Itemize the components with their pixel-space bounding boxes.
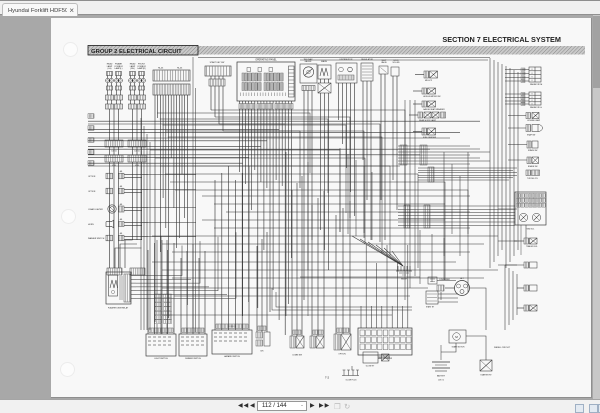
- svg-text:HL-06: HL-06: [177, 68, 182, 70]
- svg-text:TGM SOL: TGM SOL: [526, 229, 535, 231]
- svg-text:TUR DEL PIL: TUR DEL PIL: [527, 178, 538, 180]
- svg-text:RADIATOR RH: RADIATOR RH: [530, 83, 543, 86]
- svg-text:SNAP SW: SNAP SW: [527, 133, 536, 136]
- svg-text:GLOW RY: GLOW RY: [366, 366, 375, 368]
- svg-text:(RH): (RH): [130, 68, 135, 70]
- svg-text:A B: A B: [120, 203, 122, 206]
- svg-text:ALT: ALT: [460, 277, 464, 280]
- svg-text:LIGHT SWITCH: LIGHT SWITCH: [154, 358, 168, 360]
- svg-text:M: M: [455, 335, 458, 339]
- svg-text:GAUGE SEAT BREAKER: GAUGE SEAT BREAKER: [423, 108, 445, 111]
- svg-text:BRAKE SW: BRAKE SW: [528, 165, 538, 168]
- svg-text:TRAILER SOL: TRAILER SOL: [526, 245, 538, 248]
- svg-text:HL-06: HL-06: [158, 68, 163, 70]
- svg-text:OPTION: OPTION: [88, 191, 96, 193]
- svg-text:LAMP(R): LAMP(R): [137, 67, 146, 70]
- svg-text:START MOTOR: START MOTOR: [452, 346, 466, 349]
- svg-text:GLOW PLUG: GLOW PLUG: [346, 380, 357, 382]
- svg-text:DIMMER SWITCH: DIMMER SWITCH: [185, 358, 201, 360]
- svg-text:SOL-MD: SOL-MD: [393, 62, 401, 64]
- svg-text:B/S: B/S: [261, 351, 265, 353]
- svg-text:CIGAR LIGHTER: CIGAR LIGHTER: [88, 208, 103, 211]
- svg-text:LEVEL/LIMITER SW: LEVEL/LIMITER SW: [423, 96, 441, 98]
- svg-text:LICENSE LAMP: LICENSE LAMP: [527, 119, 541, 122]
- svg-text:RADIATOR LH: RADIATOR LH: [530, 106, 543, 109]
- svg-text:VALVE: VALVE: [381, 61, 387, 64]
- svg-text:A B: A B: [120, 232, 122, 235]
- svg-text:A B: A B: [120, 185, 122, 188]
- svg-text:COMBI SW: COMBI SW: [292, 355, 302, 357]
- svg-text:START RY: START RY: [426, 306, 435, 309]
- svg-text:HORN: HORN: [88, 224, 94, 226]
- svg-text:OPTION: OPTION: [338, 354, 346, 356]
- svg-text:OPTION: OPTION: [88, 176, 96, 178]
- svg-text:STARTER RY: STARTER RY: [480, 374, 492, 377]
- svg-text:A B: A B: [120, 218, 122, 221]
- svg-text:DISTRIBUTOR: DISTRIBUTOR: [340, 59, 353, 61]
- svg-text:REAR HORN LAMP: REAR HORN LAMP: [419, 119, 437, 122]
- svg-text:START KEY SW: START KEY SW: [210, 61, 225, 64]
- svg-text:FUEL SENDER: FUEL SENDER: [423, 137, 437, 139]
- svg-text:FLASHER UNIT/RELAY: FLASHER UNIT/RELAY: [108, 307, 129, 310]
- svg-text:REGULATOR: REGULATOR: [361, 58, 373, 61]
- svg-text:HAZARD SWITCH: HAZARD SWITCH: [224, 355, 240, 358]
- svg-text:7-2: 7-2: [325, 376, 330, 380]
- svg-text:MDL-PZ: MDL-PZ: [425, 80, 433, 82]
- svg-text:(LH): (LH): [108, 68, 112, 70]
- svg-text:BATTERY: BATTERY: [437, 375, 446, 378]
- svg-text:101 61: 101 61: [111, 151, 116, 153]
- svg-text:8 8 8 8 8 8: 8 8 8 8 8 8: [228, 326, 236, 328]
- svg-text:GROUP 2 ELECTRICAL CIRCUIT: GROUP 2 ELECTRICAL CIRCUIT: [91, 49, 182, 55]
- svg-text:A B: A B: [120, 170, 122, 173]
- svg-text:101 61: 101 61: [134, 151, 139, 153]
- svg-text:SPARE SW: SPARE SW: [528, 149, 538, 152]
- svg-text:WASHER SWITCH: WASHER SWITCH: [88, 237, 105, 240]
- svg-text:GAUGE: GAUGE: [305, 60, 313, 63]
- svg-text:LAMP(L): LAMP(L): [115, 67, 123, 70]
- svg-text:SECTION 7 ELECTRICAL SYSTEM: SECTION 7 ELECTRICAL SYSTEM: [442, 35, 561, 44]
- svg-text:12V X 2: 12V X 2: [438, 380, 444, 382]
- svg-text:DIESEL CIRCUIT: DIESEL CIRCUIT: [494, 347, 511, 349]
- svg-text:MAGN: MAGN: [321, 60, 327, 63]
- svg-text:OPERATING PANEL: OPERATING PANEL: [255, 59, 277, 62]
